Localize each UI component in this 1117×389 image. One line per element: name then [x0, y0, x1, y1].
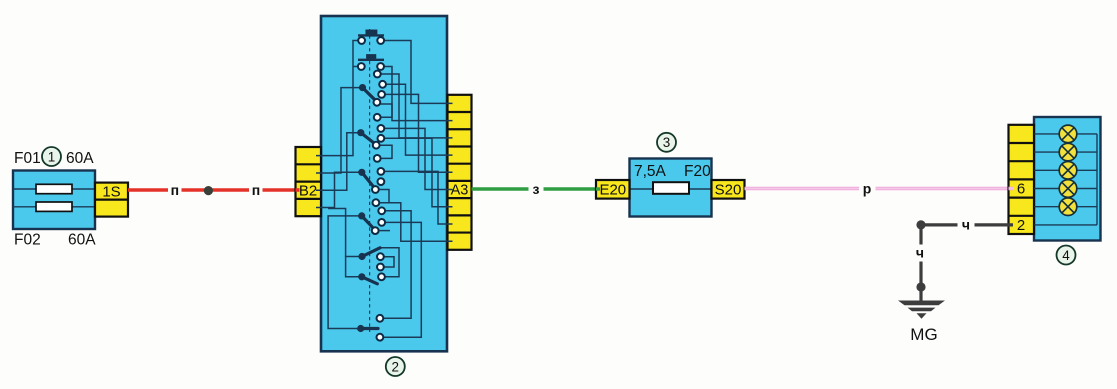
contact 23 of switch 2: [378, 273, 385, 280]
wire row 2 in lamp cluster: [1034, 151, 1097, 153]
wire з (green) segment 1: [472, 187, 529, 190]
wire bracket rows 257-267: [380, 257, 394, 267]
wire з (green) segment 2: [544, 187, 597, 190]
svg-text:1: 1: [48, 149, 56, 164]
wire: button1 to A3 pin 1: [381, 41, 453, 104]
component 2: column switch unit body: [321, 16, 447, 351]
wire: contact row to A3 pin 7: [381, 138, 453, 206]
wire bracket row 277 to lever tip: [380, 248, 399, 277]
contact 25 of switch 2: [377, 334, 384, 341]
contact 16 of switch 2: [372, 186, 379, 193]
wire stub button2 left: [353, 66, 361, 68]
fuse F02 60A: [36, 202, 72, 211]
wire: bottom contact riser 2: [380, 222, 421, 337]
pink wire tick into pin 6: [1009, 187, 1014, 191]
connector X4 (6 cells): [1009, 125, 1035, 234]
wire inside fuse box, fuse F01 row: [13, 188, 95, 190]
wire row 5 in lamp cluster: [1034, 206, 1097, 208]
contact 21 of switch 2: [377, 253, 384, 260]
callout circle 4: [1057, 246, 1076, 265]
svg-text:A3: A3: [451, 182, 469, 198]
lamp L2: [1059, 143, 1077, 161]
wire: button contacts to B2 pin 1: [316, 41, 362, 156]
lever contact K6: [358, 273, 377, 284]
wire row 1 in lamp cluster: [1034, 133, 1097, 135]
ground symbol MG: [898, 301, 945, 319]
svg-text:F01: F01: [14, 150, 41, 167]
svg-text:п: п: [171, 182, 179, 198]
wire р (pink) segment 1: [745, 187, 860, 191]
contact 3 of switch 2: [358, 63, 365, 70]
wire ч (black) vertical segment 1: [919, 225, 922, 245]
connector B2 (4 cells): [296, 147, 322, 216]
wire: contact row to A3 pin 9: [376, 203, 453, 241]
contact 22 of switch 2: [377, 264, 384, 271]
contact 11 of switch 2: [378, 135, 385, 142]
lever contact K3: [358, 169, 374, 188]
contact 8 of switch 2: [374, 99, 381, 106]
lever contact K2: [357, 129, 375, 144]
contact 18 of switch 2: [378, 207, 385, 214]
fuse F01 60A: [36, 184, 72, 193]
lamp L3: [1059, 162, 1077, 180]
wire: contact row stub: [375, 230, 390, 232]
wire inside fuse holder: [630, 188, 712, 190]
svg-text:1S: 1S: [102, 184, 120, 201]
contact 7 of switch 2: [378, 91, 385, 98]
lever contact K5: [358, 248, 380, 260]
contact 10 of switch 2: [378, 125, 385, 132]
wire right bus in lamp cluster: [1096, 134, 1098, 225]
push button switch S2: [358, 54, 384, 59]
wire row 3 in lamp cluster: [1034, 169, 1097, 171]
wire: pivot 2 to B2 pin 3: [316, 133, 361, 191]
lamp L1: [1059, 125, 1077, 143]
wire ч (black) vertical segment 2: [919, 262, 922, 288]
wire п (red) segment 3: [263, 188, 300, 192]
wire: bottom contact riser 1: [380, 211, 411, 318]
wire bracket rows 145-158: [376, 145, 392, 158]
wire inside fuse box, fuse F02 row: [13, 206, 95, 208]
wire bracket rows 190-203: [375, 190, 389, 203]
wire п (red) segment 1: [128, 188, 168, 192]
callout circle 1: [42, 147, 61, 166]
svg-text:п: п: [252, 182, 260, 198]
contact 15 of switch 2: [378, 178, 385, 185]
red wire tick into B2 pin: [296, 188, 300, 192]
green wire tick into E20 pin: [596, 187, 600, 190]
wire: contact row to A3 pin 4: [383, 84, 453, 155]
svg-text:MG: MG: [910, 325, 937, 344]
junction node on red wire: [204, 186, 213, 195]
component 1: engine fuse box: [13, 171, 95, 230]
lever contact K1: [359, 84, 376, 101]
fuse F20 7,5A: [653, 182, 689, 194]
contact 4 of switch 2: [377, 63, 384, 70]
wire row 6 in lamp cluster: [1034, 224, 1097, 226]
lamp L4: [1059, 180, 1077, 198]
connector 1S on fuse box: [95, 183, 128, 217]
junction node above ground: [916, 282, 925, 291]
svg-text:S20: S20: [715, 182, 742, 199]
svg-text:F20: F20: [684, 163, 711, 180]
wire: left bus tap: [328, 209, 346, 257]
contact 12 of switch 2: [373, 142, 380, 149]
wire: pivot 5 / pivot 6 bracket: [346, 257, 362, 277]
connector E20: [596, 180, 630, 199]
contact 5 of switch 2: [374, 71, 381, 78]
callout circle 2: [386, 357, 405, 376]
svg-text:F02: F02: [14, 232, 41, 249]
connector S20: [712, 180, 745, 199]
wire п (red) segment 2 with junction: [182, 188, 250, 192]
svg-text:2: 2: [1017, 217, 1025, 234]
contact 17 of switch 2: [373, 199, 380, 206]
wire: contact row to A3 pin 5: [382, 94, 453, 172]
contact 13 of switch 2: [374, 155, 381, 162]
wire: pivot 3 to B2 pin 4: [316, 172, 362, 207]
svg-text:з: з: [533, 181, 540, 197]
wire: button2 to A3 pin 2: [381, 67, 453, 121]
contact 24 of switch 2: [377, 315, 384, 322]
lever contact K7: [357, 325, 378, 332]
contact 9 of switch 2: [374, 114, 381, 121]
wire: contact row to A3 pin 8: [381, 171, 453, 224]
wire ч (black) horizontal segment 2: [975, 223, 1014, 226]
wire р (pink) segment 2: [876, 187, 1014, 191]
wire stub to ground: [919, 287, 922, 301]
svg-text:60A: 60A: [68, 232, 96, 249]
wire: contact row to A3 pin 6: [381, 128, 453, 189]
lever contact K4: [358, 212, 374, 229]
wire bracket rows 104-117: [377, 104, 392, 117]
contact 1 of switch 2: [358, 37, 365, 44]
contact 20 of switch 2: [372, 227, 379, 234]
wire: pivot 1 to B2 pin 2: [316, 88, 363, 173]
svg-text:7,5A: 7,5A: [634, 163, 667, 180]
callout circle 3: [657, 133, 676, 152]
svg-text:4: 4: [1062, 248, 1070, 263]
svg-text:ч: ч: [962, 217, 970, 233]
wire: pivot 4 to pivot 7 bus: [328, 216, 362, 329]
svg-text:ч: ч: [916, 245, 924, 261]
wire row 4 in lamp cluster: [1034, 188, 1097, 190]
contact 2 of switch 2: [377, 37, 384, 44]
wire ч (black) horizontal segment 1: [921, 223, 958, 226]
wire: contact row to A3 pin 3: [377, 74, 452, 138]
push button switch S1 (top): [358, 30, 384, 36]
svg-text:3: 3: [663, 135, 671, 150]
connector A3 (9 cells): [448, 95, 472, 250]
dashed actuator line of switch 2: [369, 29, 371, 332]
svg-text:2: 2: [392, 359, 400, 374]
lamp L5: [1059, 198, 1077, 216]
svg-text:6: 6: [1017, 181, 1025, 198]
contact 19 of switch 2: [378, 219, 385, 226]
svg-text:р: р: [863, 180, 872, 196]
component 4: lamp cluster body: [1034, 117, 1101, 241]
junction node at wire corner: [916, 220, 925, 229]
contact 14 of switch 2: [378, 168, 385, 175]
svg-text:60A: 60A: [66, 150, 94, 167]
contact 6 of switch 2: [379, 81, 386, 88]
component 3: fuse holder box: [630, 159, 712, 217]
svg-text:E20: E20: [599, 182, 626, 199]
svg-text:B2: B2: [299, 183, 317, 200]
